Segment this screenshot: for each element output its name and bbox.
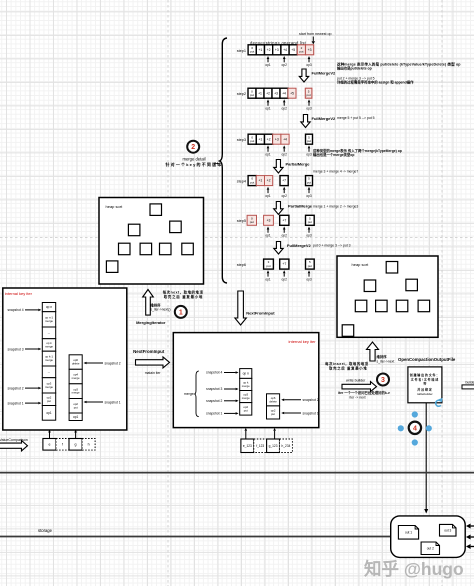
svg-text:op2: op2 — [282, 277, 288, 281]
output file out2 — [421, 542, 439, 555]
svg-text:FullMergeV2: FullMergeV2 — [287, 243, 312, 248]
step2 red result cell put5 — [305, 88, 312, 98]
curly brace grouping steps — [220, 38, 227, 283]
svg-text:merge 5 + put 5 --> put 5: merge 5 + put 5 --> put 5 — [337, 116, 375, 120]
svg-text:op n: op n — [243, 372, 249, 376]
svg-text:op2: op2 — [282, 194, 288, 198]
wire merge-detail to brace — [215, 163, 218, 165]
heap2 node bottom-left — [342, 325, 354, 337]
svg-text:输出也是put/delete op: 输出也是put/delete op — [337, 66, 372, 71]
svg-text:+7: +7 — [282, 179, 286, 183]
svg-text:snapshot 1: snapshot 1 — [7, 401, 23, 405]
svg-text:+5: +5 — [290, 91, 294, 95]
svg-text:每次insert，取堆的堆顶: 每次insert，取堆的堆顶 — [325, 361, 368, 366]
step3 op pointers — [267, 148, 269, 151]
heap1 node mid-right — [170, 221, 182, 233]
svg-text:snapshot 1: snapshot 1 — [303, 411, 319, 415]
step5 op pointers — [267, 230, 269, 233]
heap2 node row4 — [418, 300, 430, 312]
svg-text:h: h — [88, 442, 90, 446]
svg-text:op1: op1 — [265, 152, 271, 156]
step4 cell +7 — [280, 176, 288, 186]
svg-text:put: put — [308, 220, 312, 224]
svg-text:merge: merge — [45, 385, 53, 389]
svg-text:snapshot 3: snapshot 3 — [206, 387, 222, 391]
circled number 1 — [175, 306, 187, 318]
svg-text:snapshot 2: snapshot 2 — [206, 399, 222, 403]
svg-text:merge detail: merge detail — [182, 156, 205, 161]
box2 input arrow right — [274, 431, 276, 439]
selection handle dot bottom — [412, 439, 418, 445]
svg-text:put: put — [250, 139, 254, 143]
svg-text:FullMergeV2: FullMergeV2 — [312, 71, 337, 76]
step4 op pointers — [267, 190, 269, 193]
svg-text:op1: op1 — [265, 277, 271, 281]
data cells e f g h — [43, 439, 56, 451]
svg-text:+3: +3 — [267, 218, 271, 222]
svg-text:每次next，取堆的堆顶: 每次next，取堆的堆顶 — [163, 289, 204, 294]
svg-text:详细的过程需是字符串中的 assign 和 append操作: 详细的过程需是字符串中的 assign 和 append操作 — [337, 80, 414, 85]
right edge arrow 1 — [471, 525, 474, 527]
svg-text:put: put — [299, 50, 303, 54]
svg-text:write builder: write builder — [346, 378, 366, 382]
svg-text:merge: merge — [242, 384, 250, 388]
svg-text:符: 符 — [423, 381, 426, 386]
box1 stack A cells — [42, 303, 55, 312]
svg-text:delete: delete — [269, 399, 277, 403]
svg-text:维持序: 维持序 — [377, 354, 388, 359]
wire arrow start-from-newest-op to cell — [312, 37, 314, 42]
svg-text:tablebuilder: tablebuilder — [417, 392, 433, 396]
svg-text:snapshot 1: snapshot 1 — [206, 412, 222, 416]
svg-text:op n: op n — [46, 305, 52, 309]
svg-text:f_123: f_123 — [256, 444, 264, 448]
svg-text:4: 4 — [413, 425, 417, 432]
svg-text:put: put — [250, 180, 254, 184]
heap1 node mid-left — [128, 224, 140, 236]
step6 cell put5 — [306, 259, 315, 269]
svg-text:ValueComparison: ValueComparison — [0, 438, 28, 442]
arrow NextFromInput right — [136, 357, 170, 368]
internal key iter box 1 — [3, 288, 127, 430]
svg-text:put: put — [308, 264, 312, 268]
svg-text:step6: step6 — [237, 263, 246, 267]
wire OpenCompaction down to output — [425, 403, 427, 509]
arrow ValueComparison right — [0, 440, 28, 451]
heap2 node row1 — [355, 300, 367, 312]
selection handle dot left — [398, 425, 404, 431]
step4 operand cells — [248, 176, 256, 186]
merge arrow FullMergeV2 #1 — [299, 69, 308, 82]
horizontal separator line — [0, 472, 474, 474]
svg-text:delete: delete — [72, 362, 80, 366]
svg-text:snapshot 4: snapshot 4 — [7, 308, 23, 312]
step3 red cell +3 — [273, 134, 281, 144]
page boundary dashed horizontal line — [0, 237, 474, 239]
svg-text:op2: op2 — [282, 234, 288, 238]
svg-text:op3: op3 — [306, 106, 312, 110]
svg-text:...: ... — [48, 331, 51, 335]
heap2 node top — [386, 262, 398, 274]
circled number 3 — [377, 374, 389, 386]
svg-text:start from newest op: start from newest op — [299, 32, 332, 36]
svg-text:op1: op1 — [265, 63, 271, 67]
svg-text:e: e — [48, 442, 50, 446]
svg-text:put: put — [307, 139, 311, 143]
heap2 node row2 — [376, 300, 388, 312]
storage line — [0, 536, 391, 538]
svg-text:put: put — [250, 93, 254, 97]
svg-text:internal key iter: internal key iter — [288, 339, 316, 344]
svg-text:op3: op3 — [306, 194, 312, 198]
heap1 node row1 — [119, 243, 131, 255]
svg-text:f: f — [62, 442, 63, 446]
step5 red cell +3 — [264, 215, 274, 225]
svg-text:+3: +3 — [308, 48, 312, 52]
svg-text:merge 3 + merge 4 -> merge7: merge 3 + merge 4 -> merge7 — [313, 170, 358, 174]
svg-text:1: 1 — [179, 309, 183, 316]
data cells e_123 f_123 g_123 h_234 — [241, 439, 254, 453]
svg-text:merge: merge — [184, 392, 194, 396]
rotate handle icon — [436, 400, 441, 406]
step3 red cell +4 — [281, 134, 289, 144]
page boundary dashed vertical line left — [167, 0, 169, 586]
step6 cell +7 — [280, 259, 289, 269]
svg-text:+1: +1 — [258, 137, 262, 141]
svg-text:put: put — [244, 408, 248, 412]
svg-text:step2: step2 — [237, 92, 246, 96]
svg-text:NextFromInput: NextFromInput — [246, 311, 275, 316]
svg-text:out 1: out 1 — [405, 531, 412, 535]
heap1 node bottom-left — [106, 261, 118, 273]
svg-text:op1: op1 — [265, 234, 271, 238]
svg-text:internal key iter: internal key iter — [5, 291, 33, 296]
svg-text:3: 3 — [381, 377, 385, 384]
step1 operand cells — [248, 45, 256, 55]
right edge arrow 2 — [471, 536, 474, 538]
step1 red cell +3 — [306, 45, 314, 55]
step5 cell +7 — [280, 215, 289, 225]
svg-text:step4: step4 — [237, 179, 246, 183]
svg-text:取完之后 重复最小堆: 取完之后 重复最小堆 — [164, 294, 203, 299]
svg-text:snapshot 2: snapshot 2 — [105, 361, 121, 365]
svg-text:+3: +3 — [275, 137, 279, 141]
box1 input arrow right — [75, 433, 77, 439]
svg-text:snapshot 3: snapshot 3 — [7, 347, 23, 351]
svg-text:这种merge 表示传入的是 put/delete (kT: 这种merge 表示传入的是 put/delete (kTypeValue/kT… — [337, 61, 461, 66]
heap1 node top — [150, 204, 162, 216]
svg-text:NextFromInput: NextFromInput — [133, 349, 165, 354]
svg-text:这种类型的merge表示 传入了两个merge(kTypeM: 这种类型的merge表示 传入了两个merge(kTypeMerge) op — [313, 148, 402, 153]
svg-text:put: put — [307, 180, 311, 184]
step3 result cell put5 — [306, 134, 313, 144]
svg-text:storage: storage — [38, 528, 53, 533]
svg-text:merge: merge — [72, 376, 80, 380]
svg-text:+2: +2 — [266, 91, 270, 95]
svg-text:put: put — [271, 412, 275, 416]
svg-text:+7: +7 — [282, 262, 286, 266]
svg-text:op1: op1 — [73, 415, 79, 419]
svg-text:snapshot 2: snapshot 2 — [303, 398, 319, 402]
svg-text:out 3: out 3 — [444, 529, 451, 533]
selection handle dot right — [426, 425, 432, 431]
svg-text:+1: +1 — [258, 48, 262, 52]
box1 input arrow left — [49, 433, 51, 439]
svg-text:op3: op3 — [306, 234, 312, 238]
svg-text:builder: builder — [466, 381, 474, 385]
curly brace box2 — [195, 371, 199, 417]
svg-text:op2: op2 — [282, 63, 288, 67]
arrow NextFromInput down — [235, 291, 246, 325]
svg-text:op1: op1 — [265, 106, 271, 110]
svg-text:step1: step1 — [237, 49, 246, 53]
svg-text:op1: op1 — [265, 194, 271, 198]
merge arrow PartialMerge #2 — [274, 202, 283, 215]
svg-text:matain iter: matain iter — [145, 371, 162, 375]
svg-text:put: put — [307, 93, 311, 97]
svg-text:snapshot 4: snapshot 4 — [206, 371, 222, 375]
heap sort box 1 — [99, 198, 204, 285]
svg-text:put: put — [250, 50, 254, 54]
svg-text:OpenCompactionOutputFile: OpenCompactionOutputFile — [398, 357, 456, 362]
arrow MergingIterator up — [143, 290, 154, 316]
svg-text:merge: merge — [45, 358, 53, 362]
step5 red cell put0 — [247, 215, 256, 225]
step5 result cell put5 — [306, 215, 315, 225]
svg-text:+5: +5 — [291, 48, 295, 52]
svg-text:+3: +3 — [275, 48, 279, 52]
svg-text:snapshot 2: snapshot 2 — [7, 386, 23, 390]
heap1 node row4 — [182, 243, 194, 255]
heap1 node row3 — [160, 243, 172, 255]
svg-text:put: put — [250, 220, 254, 224]
selection handle dot top — [412, 411, 418, 417]
step1 red cell put2 — [297, 45, 305, 55]
svg-text:+7: +7 — [282, 218, 286, 222]
svg-text:merge: merge — [72, 391, 80, 395]
svg-text:MergingIterator: MergingIterator — [136, 320, 166, 325]
step6 cell put3 — [264, 259, 274, 269]
merge arrow FullMergeV2 #3 — [274, 242, 283, 255]
output file out3 — [440, 524, 457, 536]
svg-text:s_iter->next(): s_iter->next() — [150, 308, 170, 312]
svg-text:put: put — [74, 405, 78, 409]
svg-text:+1: +1 — [258, 91, 262, 95]
svg-text:2: 2 — [191, 144, 195, 151]
right edge arrow 3 — [471, 546, 474, 548]
svg-text:op1: op1 — [46, 411, 52, 415]
svg-text:+2: +2 — [267, 48, 271, 52]
box2 stack 1 cells — [240, 369, 252, 379]
circled number 4 — [409, 422, 421, 434]
step3 operand cells — [248, 134, 256, 144]
heap1 node row2 — [140, 243, 152, 255]
svg-text:op3: op3 — [306, 152, 312, 156]
svg-text:取完之后 重复最小堆: 取完之后 重复最小堆 — [329, 365, 367, 370]
svg-text:snapshot 1: snapshot 1 — [105, 400, 121, 404]
svg-text:g: g — [75, 442, 77, 446]
svg-text:op2: op2 — [282, 152, 288, 156]
svg-text:PartialMerge: PartialMerge — [286, 162, 311, 167]
output files rounded box — [391, 516, 466, 558]
heap2 node mid-left — [364, 280, 376, 292]
step6 op pointers — [267, 273, 269, 276]
step4 red cell +1 — [256, 176, 264, 186]
output file out1 — [398, 526, 418, 540]
OpenCompactionOutputFile box — [408, 367, 442, 403]
svg-text:针对一个key的不同版本: 针对一个key的不同版本 — [165, 161, 222, 167]
svg-text:put 0 + merge 3 --> put 3: put 0 + merge 3 --> put 3 — [313, 244, 351, 248]
svg-text:heap sort: heap sort — [352, 262, 370, 267]
svg-text:FullMergeV2: FullMergeV2 — [312, 116, 337, 121]
svg-text:+2: +2 — [267, 137, 271, 141]
svg-text:+4: +4 — [283, 137, 287, 141]
heap2 node row3 — [396, 300, 408, 312]
svg-text:iter -> next: iter -> next — [350, 395, 366, 399]
svg-text:e_123: e_123 — [243, 444, 252, 448]
svg-text:merge 1 + merge 2 -> merge3: merge 1 + merge 2 -> merge3 — [313, 205, 358, 209]
svg-text:g_123: g_123 — [269, 444, 278, 448]
merge arrow FullMergeV2 #2 — [301, 115, 310, 128]
svg-text:put: put — [47, 399, 51, 403]
box2 input arrow left — [245, 431, 247, 439]
svg-text:out 2: out 2 — [427, 547, 434, 551]
svg-text:merge: merge — [45, 344, 53, 348]
box2 stack 2 cells — [267, 394, 280, 406]
svg-text:+3: +3 — [274, 91, 278, 95]
step4 result cell put5 — [306, 176, 313, 186]
svg-text:merge: merge — [45, 319, 53, 323]
arrow heap2 up — [367, 342, 379, 361]
svg-text:s_iter->next: s_iter->next — [377, 360, 395, 364]
svg-text:PartialMerge: PartialMerge — [288, 204, 313, 209]
svg-text:+4: +4 — [282, 91, 286, 95]
svg-text:输出也是一个merge类型op: 输出也是一个merge类型op — [313, 152, 354, 157]
svg-text:+1: +1 — [258, 179, 262, 183]
arrow write builder right — [342, 382, 377, 392]
svg-text:+2: +2 — [267, 179, 271, 183]
step2 op pointers — [267, 102, 269, 105]
svg-text:merge: merge — [242, 396, 250, 400]
svg-text:step5: step5 — [237, 219, 246, 223]
internal key iter box 2 — [173, 333, 318, 428]
svg-text:知乎 @hugo: 知乎 @hugo — [364, 559, 464, 579]
page boundary dashed vertical line right — [441, 0, 443, 586]
step2 red cell +5 — [288, 88, 296, 98]
step2 operand cells — [248, 88, 256, 98]
step4 red cell +2 — [265, 176, 273, 186]
step1 op pointers op1 op2 op3 — [267, 59, 269, 62]
heap2 node mid-right — [406, 279, 418, 291]
heap sort box 2 — [337, 256, 438, 337]
svg-text:...: ... — [48, 370, 51, 374]
svg-text:op3: op3 — [306, 277, 312, 281]
svg-text:put: put — [266, 264, 270, 268]
svg-text:step3: step3 — [237, 138, 246, 142]
box1 stack B cells — [69, 355, 82, 370]
svg-text:op3: op3 — [306, 63, 312, 67]
circled number 2 — [187, 141, 199, 153]
svg-text:heap sort: heap sort — [106, 204, 124, 209]
merge arrow PartialMerge #1 — [274, 160, 283, 174]
svg-text:+4: +4 — [283, 48, 287, 52]
svg-text:op2: op2 — [282, 106, 288, 110]
svg-text:h_234: h_234 — [282, 444, 291, 448]
